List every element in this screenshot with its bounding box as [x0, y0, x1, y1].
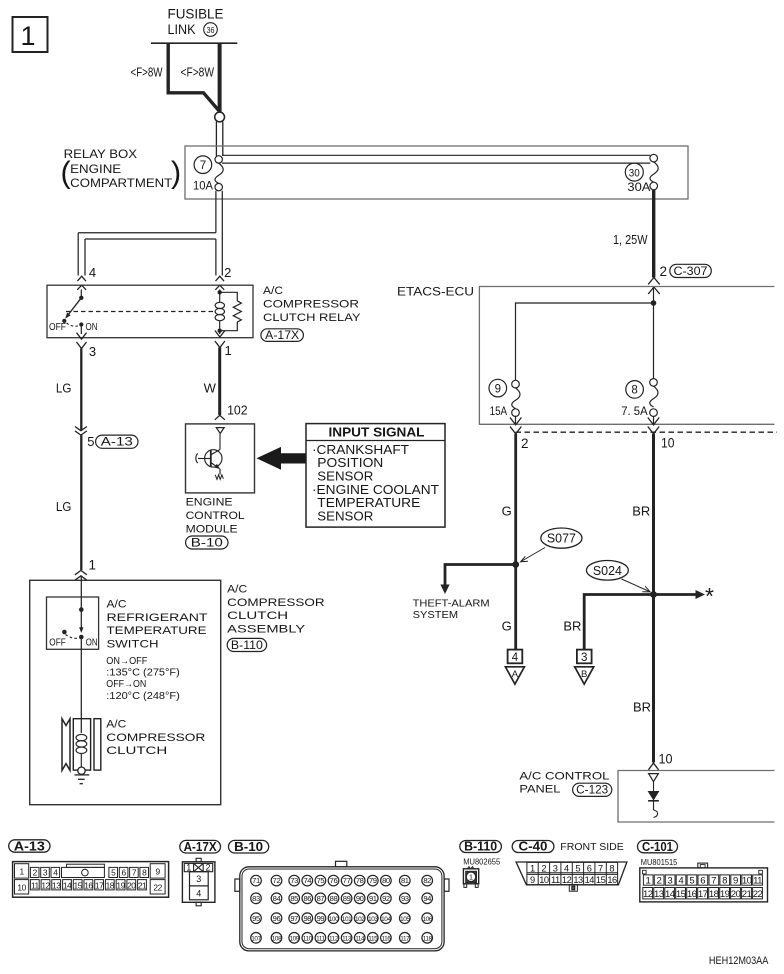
svg-text:4: 4 [196, 888, 201, 898]
svg-text:A/C: A/C [263, 285, 283, 297]
wire LG from relay pin 3 [80, 349, 82, 431]
svg-text:8: 8 [631, 385, 637, 397]
svg-text:81: 81 [401, 876, 409, 885]
A/C compressor clutch armature plate [94, 719, 101, 770]
svg-text:C-123: C-123 [576, 785, 608, 797]
svg-text:1: 1 [186, 863, 191, 873]
svg-text:2: 2 [205, 863, 210, 873]
svg-text:ON: ON [86, 638, 98, 649]
fusible link number circle 36 [204, 23, 218, 37]
svg-text:(: ( [61, 155, 71, 189]
svg-text:2: 2 [521, 436, 529, 451]
A/C compressor clutch relay label [263, 285, 361, 324]
svg-text:20: 20 [127, 880, 136, 890]
relay A-17X box [47, 285, 253, 338]
svg-text:<F>8W: <F>8W [131, 65, 164, 80]
svg-text:11: 11 [31, 880, 40, 890]
svg-text:FUSIBLE: FUSIBLE [168, 6, 224, 22]
svg-text:CLUTCH: CLUTCH [106, 745, 167, 757]
connector A-17X body [182, 858, 215, 906]
svg-text:14: 14 [63, 880, 72, 890]
wire fusible link right leg [218, 43, 222, 112]
svg-text:C-101: C-101 [642, 840, 673, 854]
svg-text:1, 25W: 1, 25W [613, 232, 648, 247]
chevron pair relay pin 3 exit [77, 333, 87, 340]
svg-text:RELAY BOX: RELAY BOX [64, 147, 138, 161]
svg-text:*: * [705, 583, 714, 609]
wire double-line from fuse 7 down and branch to relay pins 4 and 2 [78, 191, 222, 276]
arrow from S077 to node [521, 548, 545, 562]
svg-text:ENGINE: ENGINE [186, 497, 234, 509]
svg-text:CLUTCH RELAY: CLUTCH RELAY [263, 312, 361, 324]
svg-text:12: 12 [643, 889, 653, 900]
svg-text:87: 87 [317, 894, 325, 903]
svg-text:10A: 10A [193, 181, 213, 193]
svg-text:1: 1 [469, 873, 473, 882]
svg-text:OFF→ON: OFF→ON [106, 679, 146, 690]
terminal box 3 [577, 650, 592, 664]
relay resistor in parallel [220, 292, 242, 330]
svg-text:B-10: B-10 [234, 840, 263, 854]
chevron pair entering ETACS at C-307 [648, 278, 660, 285]
svg-text:C-40: C-40 [519, 840, 548, 854]
wire ON contact to pin 3 [80, 325, 82, 335]
svg-text:THEFT-ALARM: THEFT-ALARM [413, 599, 490, 610]
relay mechanical dashed linkage [66, 311, 214, 313]
node S077 junction [512, 561, 519, 568]
svg-text:13: 13 [573, 875, 583, 885]
svg-text:1: 1 [20, 21, 35, 51]
svg-text:TEMPERATURE: TEMPERATURE [317, 496, 420, 510]
svg-text:96: 96 [273, 914, 281, 923]
terminal triangle A [505, 667, 524, 684]
svg-text:9: 9 [530, 875, 535, 885]
svg-text:115: 115 [368, 935, 378, 942]
svg-text:2: 2 [541, 863, 546, 873]
svg-text:COMPRESSOR: COMPRESSOR [263, 299, 359, 311]
svg-text:MU802655: MU802655 [463, 856, 500, 866]
connector label C-101 bottom [638, 840, 678, 854]
panel internal input triangle [649, 774, 659, 782]
svg-text:1: 1 [646, 875, 651, 886]
svg-text:A/C CONTROL: A/C CONTROL [519, 770, 609, 782]
svg-text:71: 71 [252, 876, 260, 885]
relay coil wire from pin 2 [219, 290, 221, 293]
svg-text:109: 109 [289, 935, 299, 942]
svg-text:2: 2 [660, 264, 668, 279]
svg-text:CLUTCH: CLUTCH [227, 610, 288, 622]
A/C compressor clutch rotor band [62, 719, 70, 771]
svg-text:83: 83 [252, 894, 260, 903]
connector B-110 body [463, 867, 478, 888]
svg-text:COMPRESSOR: COMPRESSOR [106, 732, 205, 744]
svg-text:78: 78 [356, 876, 364, 885]
chevron pair ETACS pin 2 exit [510, 418, 521, 425]
connector label C-307 [670, 264, 712, 278]
svg-text:5: 5 [689, 875, 694, 886]
panel internal wire [653, 782, 655, 791]
chevron pair ETACS pin 10 exit [648, 418, 659, 425]
svg-text:18: 18 [106, 880, 115, 890]
svg-text:102: 102 [227, 403, 248, 418]
input signal box [306, 424, 445, 527]
svg-text:·CRANKSHAFT: ·CRANKSHAFT [312, 443, 409, 457]
svg-text:20: 20 [731, 889, 741, 900]
svg-text:A-17X: A-17X [265, 330, 299, 342]
svg-text:1: 1 [89, 558, 97, 573]
A/C refrigerant temperature switch box [47, 597, 99, 649]
svg-text:90: 90 [356, 894, 364, 903]
wire fusible link left leg [168, 43, 219, 111]
svg-text:3: 3 [89, 344, 96, 359]
ECM internal wire [219, 433, 221, 449]
svg-text:107: 107 [251, 935, 261, 942]
A/C control panel label [519, 770, 609, 795]
svg-text:3: 3 [196, 874, 201, 884]
svg-text:HEH12M03AA: HEH12M03AA [709, 955, 769, 967]
ground [75, 775, 90, 784]
svg-text:2: 2 [224, 265, 231, 280]
temperature thresholds text [106, 656, 180, 702]
temp switch top contact [79, 607, 84, 612]
svg-text:A/C: A/C [227, 584, 247, 596]
wire temp switch to clutch coil [80, 639, 82, 733]
svg-text:BR: BR [563, 619, 581, 634]
wire W from relay pin 1 to ECM [218, 348, 221, 416]
svg-text:13: 13 [654, 889, 664, 900]
inline connector chevrons A-13 pin 5 [75, 427, 87, 431]
svg-text:2: 2 [657, 875, 662, 886]
terminal triangle B [575, 667, 594, 684]
svg-text:G: G [502, 504, 512, 519]
connector label A-17X [261, 329, 304, 342]
svg-text::135°C (275°F): :135°C (275°F) [106, 668, 180, 679]
A/C compressor clutch assembly box [30, 580, 221, 804]
svg-text:10: 10 [539, 875, 549, 885]
svg-text:B: B [581, 669, 587, 680]
A/C control panel box [618, 771, 775, 823]
svg-text:5: 5 [575, 863, 580, 873]
chevron pair relay pin 4 entry [77, 276, 86, 281]
svg-text:92: 92 [382, 894, 390, 903]
svg-text:CONTROL: CONTROL [186, 510, 245, 522]
ECM internal ground squiggle [215, 475, 223, 480]
wire inside ETACS from C-307 down [653, 287, 655, 379]
svg-text:8: 8 [722, 875, 727, 886]
svg-text:BR: BR [633, 700, 651, 715]
relay coil top node [218, 290, 222, 294]
svg-text:FRONT SIDE: FRONT SIDE [560, 842, 624, 853]
svg-text:LINK: LINK [168, 21, 197, 37]
connector C-101 body [640, 863, 768, 902]
svg-text:A-13: A-13 [101, 437, 133, 449]
svg-text:4: 4 [564, 863, 569, 873]
svg-text:9: 9 [495, 383, 501, 395]
svg-text:108: 108 [272, 935, 282, 942]
relay ON contact [79, 322, 83, 326]
arrowhead to theft-alarm [440, 585, 449, 595]
svg-text:A-17X: A-17X [184, 840, 218, 854]
relay switch arm [68, 298, 81, 315]
connector label B-110 bottom [460, 840, 502, 854]
svg-text:W: W [204, 381, 217, 396]
relay switch contact wire from pin 4 [80, 290, 82, 298]
svg-text:SWITCH: SWITCH [107, 638, 159, 650]
svg-text:76: 76 [330, 876, 338, 885]
svg-text:73: 73 [290, 876, 298, 885]
svg-text:112: 112 [329, 935, 339, 942]
wire LG lower segment [80, 435, 82, 570]
svg-text:C-307: C-307 [674, 266, 708, 278]
svg-text:A/C: A/C [107, 599, 127, 611]
A/C compressor clutch label [106, 719, 205, 758]
svg-text:6: 6 [587, 863, 592, 873]
connector label A-17X bottom [180, 840, 221, 854]
svg-text:15A: 15A [490, 406, 508, 418]
svg-text:ASSEMBLY: ASSEMBLY [227, 624, 306, 636]
fuse 8 [621, 379, 658, 418]
connector label A-13 inline [96, 435, 138, 449]
bus double-line inside relay box [222, 154, 650, 156]
svg-text:7: 7 [598, 863, 603, 873]
chevron pair relay pin 2 entry [216, 276, 225, 281]
svg-text:98: 98 [303, 914, 311, 923]
input signal title separator [306, 440, 445, 442]
svg-text:A-13: A-13 [14, 839, 45, 853]
svg-text:106: 106 [422, 916, 432, 923]
svg-text:19: 19 [116, 880, 125, 890]
svg-text:94: 94 [423, 894, 431, 903]
svg-text:7: 7 [200, 160, 206, 172]
svg-text:16: 16 [607, 875, 617, 885]
wire coil to pin 1 [219, 331, 221, 334]
relay coil bottom node [218, 329, 222, 333]
svg-text:4: 4 [89, 265, 96, 280]
svg-text:17: 17 [95, 880, 104, 890]
connector label B-10 [186, 536, 228, 549]
svg-text:91: 91 [369, 894, 377, 903]
wire branch to theft-alarm system [445, 565, 516, 586]
svg-text:OFF: OFF [49, 322, 66, 333]
wire BR from ETACS pin 10 down [652, 434, 655, 763]
fuse 9 [489, 379, 520, 418]
C-40 pin grid [527, 862, 618, 891]
svg-text:103: 103 [368, 916, 378, 923]
node S024 junction [650, 591, 657, 598]
svg-text:118: 118 [423, 935, 433, 942]
svg-text:11: 11 [551, 875, 560, 885]
theft-alarm system label [413, 599, 490, 622]
input signal items [312, 443, 439, 524]
svg-text:21: 21 [742, 889, 752, 900]
connector label B-10 bottom [229, 840, 269, 854]
svg-text:11: 11 [753, 875, 762, 886]
svg-text:INPUT SIGNAL: INPUT SIGNAL [329, 426, 425, 440]
relay switch top contact [79, 296, 83, 300]
clutch coil windings [76, 734, 87, 767]
fusible link bus bar [151, 42, 237, 44]
svg-text:19: 19 [720, 889, 730, 900]
fuse 7 [193, 156, 223, 193]
svg-text:16: 16 [84, 880, 93, 890]
temp switch dashed travel arc [66, 635, 79, 639]
engine control module label [186, 497, 245, 536]
ETACS boundary dashed line [516, 431, 778, 433]
svg-text:COMPARTMENT: COMPARTMENT [70, 176, 173, 190]
chevron ECM pin 102 entry [215, 415, 225, 420]
wire fuse 9 to exit [515, 416, 517, 425]
svg-text:30: 30 [629, 167, 640, 179]
svg-text:TEMPERATURE: TEMPERATURE [107, 625, 208, 637]
svg-text:15: 15 [676, 889, 686, 900]
relay OFF contact [62, 319, 66, 323]
A/C compressor clutch coil housing [73, 719, 90, 770]
svg-text:<F>8W: <F>8W [181, 65, 215, 80]
connector label A-13 bottom [9, 839, 50, 853]
svg-text:14: 14 [665, 889, 676, 900]
wire 1.25W from fuse 30 down to ETACS [652, 190, 655, 278]
wire fuse 8 to exit [653, 416, 655, 425]
fuse 30 [625, 154, 658, 194]
svg-text:79: 79 [369, 876, 377, 885]
svg-text:110: 110 [303, 935, 313, 942]
node junction inside ETACS [651, 300, 657, 306]
svg-text:21: 21 [138, 880, 147, 890]
svg-text:102: 102 [355, 916, 365, 923]
svg-text:LG: LG [56, 381, 72, 396]
svg-text:97: 97 [290, 914, 298, 923]
svg-text:PANEL: PANEL [519, 784, 560, 796]
svg-text:113: 113 [342, 935, 352, 942]
svg-text:10: 10 [659, 752, 673, 767]
svg-text:B-110: B-110 [231, 640, 263, 652]
svg-text:1: 1 [225, 343, 232, 358]
svg-text:80: 80 [382, 876, 390, 885]
wire G from ETACS pin 2 down [514, 434, 517, 650]
wire double-line from bullet into relay box [215, 122, 217, 156]
svg-text:): ) [171, 155, 181, 189]
svg-text:SENSOR: SENSOR [317, 509, 373, 523]
relay coil [215, 292, 224, 330]
svg-text:4: 4 [678, 875, 684, 886]
wire branch to fuse 9 [516, 303, 654, 380]
svg-text:S077: S077 [547, 532, 576, 546]
relay box label text [61, 147, 182, 190]
svg-text::120°C (248°F): :120°C (248°F) [106, 691, 180, 702]
svg-text:3: 3 [667, 875, 672, 886]
temp switch OFF contact [62, 630, 67, 635]
svg-text:36: 36 [207, 25, 215, 35]
svg-text:5: 5 [87, 434, 94, 449]
svg-text:G: G [502, 619, 512, 634]
temp switch ON contact [79, 635, 84, 640]
svg-text:22: 22 [753, 889, 763, 900]
svg-text:B-110: B-110 [464, 840, 497, 854]
A/C compressor clutch assembly label [227, 584, 325, 636]
wire branch right with arrow [654, 593, 697, 596]
temp switch arm with arrowhead [80, 610, 82, 628]
terminal box 4 [508, 650, 523, 664]
wire into temperature switch [80, 576, 82, 610]
connector label C-123 [573, 783, 612, 797]
svg-text:117: 117 [400, 935, 410, 942]
svg-text:ON: ON [86, 322, 98, 333]
connector label C-40 bottom [512, 840, 554, 854]
svg-text:101: 101 [342, 916, 352, 923]
svg-text:LG: LG [56, 499, 72, 514]
engine control module box [186, 424, 255, 493]
wire LG into A/C assembly pin 1 [75, 570, 87, 574]
svg-text:84: 84 [273, 894, 281, 903]
svg-text:1: 1 [530, 863, 535, 873]
svg-text:75: 75 [317, 876, 325, 885]
svg-text:SENSOR: SENSOR [317, 469, 373, 483]
svg-text:ETACS-ECU: ETACS-ECU [397, 287, 474, 299]
svg-text:3: 3 [581, 652, 587, 664]
svg-text:REFRIGERANT: REFRIGERANT [107, 612, 208, 624]
svg-text:13: 13 [52, 880, 61, 890]
svg-text:15: 15 [74, 880, 83, 890]
svg-text:93: 93 [401, 894, 409, 903]
svg-text:10: 10 [17, 883, 26, 893]
svg-text:30A: 30A [627, 182, 650, 194]
svg-text:16: 16 [687, 889, 697, 900]
svg-text:·ENGINE COOLANT: ·ENGINE COOLANT [312, 483, 439, 497]
svg-text:114: 114 [355, 935, 365, 942]
svg-text:74: 74 [303, 876, 311, 885]
svg-text:9: 9 [733, 875, 738, 886]
svg-text:104: 104 [381, 916, 391, 923]
svg-text:89: 89 [343, 894, 351, 903]
bullet terminal at wire merge [215, 112, 225, 122]
svg-text:105: 105 [400, 916, 410, 923]
svg-text:4: 4 [512, 652, 519, 664]
svg-text:95: 95 [252, 914, 260, 923]
svg-text:88: 88 [330, 894, 338, 903]
svg-text:SYSTEM: SYSTEM [413, 610, 459, 621]
A/C refrigerant temperature switch label [107, 599, 208, 651]
svg-text:18: 18 [709, 889, 719, 900]
splice S077 [541, 528, 582, 548]
relay box (engine compartment) enclosure [185, 146, 688, 199]
svg-text:B-10: B-10 [191, 537, 223, 549]
input signal arrow [257, 447, 307, 470]
svg-text:ENGINE: ENGINE [70, 162, 121, 176]
svg-text:77: 77 [343, 876, 351, 885]
svg-text:99: 99 [317, 914, 325, 923]
svg-text:14: 14 [585, 875, 595, 885]
svg-text:OFF: OFF [49, 638, 66, 649]
wire below diode with continuation squiggle [653, 801, 655, 810]
transistor emitter arrowhead [214, 464, 220, 469]
svg-text:MU801515: MU801515 [641, 857, 678, 867]
svg-text:S024: S024 [593, 564, 622, 578]
svg-text:A/C: A/C [106, 719, 126, 731]
svg-text:86: 86 [303, 894, 311, 903]
svg-text:A: A [512, 669, 519, 680]
svg-text:POSITION: POSITION [317, 456, 383, 470]
page number box 1 [13, 17, 48, 52]
svg-text:111: 111 [316, 935, 325, 942]
fusible link label [168, 6, 224, 38]
svg-text:10: 10 [742, 875, 752, 886]
connector A-13 body [13, 862, 169, 898]
connector C-40 body trapezoid [516, 862, 627, 885]
svg-text:7. 5A: 7. 5A [621, 406, 648, 418]
splice S024 [586, 561, 628, 581]
relay switch dashed travel arc [67, 323, 79, 326]
svg-text:17: 17 [698, 889, 708, 900]
